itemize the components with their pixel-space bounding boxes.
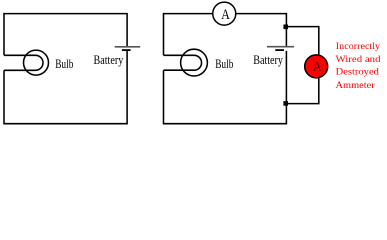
svg-text:A: A — [313, 59, 322, 75]
bulb B2 filament stadium (right circuit) — [164, 55, 202, 70]
wire: left circuit loop (top/right upper portion) — [4, 14, 127, 56]
wire: right circuit loop (top/right upper portion) — [164, 14, 287, 56]
battery BT1 short plate (left circuit) — [122, 49, 131, 51]
ammeter A1 circle (top of right circuit) — [213, 2, 236, 25]
battery BT2 short plate (right circuit) — [275, 49, 284, 51]
wire: shunt branch to destroyed ammeter — [286, 27, 318, 104]
svg-text:Battery: Battery — [94, 52, 124, 67]
battery BT1 long plate (left circuit) — [115, 46, 141, 48]
svg-text:Destroyed: Destroyed — [336, 67, 379, 78]
svg-text:Wired and: Wired and — [336, 54, 381, 65]
battery BT2 long plate (right circuit) — [267, 46, 294, 48]
wire: left circuit loop (lower portion) — [4, 51, 127, 124]
bulb B1 envelope circle (left circuit) — [24, 50, 49, 75]
bulb B1 filament stadium (left circuit) — [4, 55, 43, 70]
svg-text:Bulb: Bulb — [55, 56, 73, 71]
bulb B2 envelope circle (right circuit) — [181, 49, 208, 76]
svg-text:A: A — [221, 7, 230, 23]
destroyed ammeter A2 circle (red) — [305, 55, 328, 78]
svg-text:Ammeter: Ammeter — [336, 80, 376, 91]
wire: right circuit loop (lower portion) — [164, 51, 287, 124]
junction node (top, square) — [283, 25, 288, 30]
svg-text:Incorrectly: Incorrectly — [336, 41, 380, 52]
svg-text:Bulb: Bulb — [215, 56, 233, 71]
junction node (bottom, square) — [283, 101, 288, 106]
svg-text:Battery: Battery — [253, 52, 283, 67]
